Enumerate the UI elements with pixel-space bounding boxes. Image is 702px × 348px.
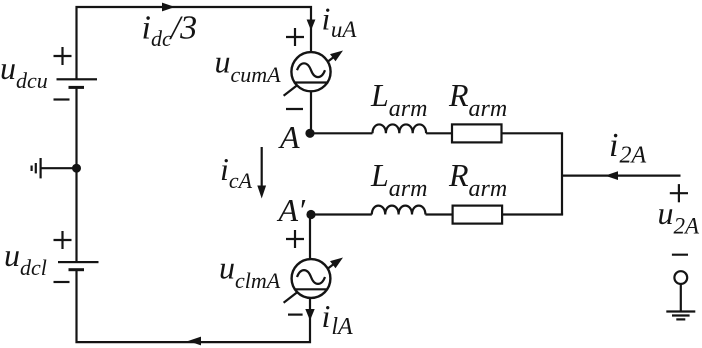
source U2 circle [292, 259, 331, 298]
inductor L1 [373, 124, 427, 133]
wire inductor to resistor [426, 132, 452, 134]
wire terminal to ground [680, 284, 682, 312]
plus sign of u_dcl [54, 231, 72, 249]
svg-text:ucumA: ucumA [215, 44, 282, 88]
svg-text:A′: A′ [277, 192, 307, 228]
wire node A' to inductor [311, 213, 372, 215]
arrow i_cA (annotation, down) [261, 147, 263, 187]
svg-text:icA: icA [220, 151, 253, 193]
svg-text:udcl: udcl [4, 237, 47, 280]
op source U1 u_cumA: diagonal variability arrow [284, 55, 337, 96]
wire node A to inductor [310, 132, 373, 134]
minus sign of u_dcl [54, 281, 70, 283]
svg-text:idc/3: idc/3 [142, 10, 198, 52]
arrow i_lA (down) below source U2 [305, 309, 314, 321]
wire inductor2 to resistor2 [425, 213, 452, 215]
wire source U1 to node A [310, 91, 312, 133]
minus sign of u_dcu [54, 98, 70, 100]
wire right vertical joining arms [561, 133, 563, 214]
wire output [562, 175, 681, 177]
wire resistor to right joint [502, 132, 564, 134]
arrow i_uA (down) on wire into upper source [307, 20, 316, 31]
minus sign upper source [286, 108, 303, 110]
resistor R1 [452, 124, 502, 142]
plus sign lower source [286, 230, 304, 248]
wire node A' down to lower source [309, 215, 311, 260]
source U1 circle [291, 52, 330, 91]
arrow i_2A (pointing left) on output wire [605, 171, 618, 180]
junction dot ground [72, 164, 81, 173]
svg-text:i2A: i2A [609, 127, 646, 169]
svg-text:uclmA: uclmA [219, 250, 281, 294]
node A dot [305, 129, 314, 138]
ground left [32, 158, 77, 178]
sine inside U2 [297, 270, 325, 284]
wire bottom horizontal [75, 298, 310, 342]
ground right [666, 312, 695, 320]
svg-text:Rarm: Rarm [448, 157, 507, 202]
svg-text:A: A [278, 119, 300, 155]
plus sign output [670, 184, 688, 202]
source U2 diagonal variability arrow [284, 262, 337, 303]
arrow on bottom wire (pointing left) [188, 337, 201, 346]
inductor L2 [372, 206, 426, 215]
svg-text:Rarm: Rarm [448, 77, 507, 122]
chord inside U2 [295, 288, 328, 290]
wire left middle segment [75, 88, 77, 262]
plus sign upper source [286, 28, 304, 46]
arrow i_dc on top wire [162, 3, 175, 12]
resistor R2 [453, 206, 503, 224]
svg-text:Larm: Larm [370, 157, 427, 202]
battery U_dcl plates [58, 261, 99, 263]
svg-text:iuA: iuA [322, 1, 358, 43]
svg-text:udcu: udcu [0, 50, 48, 93]
wire top horizontal [77, 7, 312, 79]
chord inside U1 [295, 81, 328, 83]
minus sign lower source [288, 314, 303, 316]
plus sign of u_dcu [54, 47, 72, 65]
minus sign output [672, 254, 688, 256]
battery U_dcu plates [57, 78, 98, 80]
wire resistor2 to right joint [502, 213, 563, 215]
svg-text:ilA: ilA [322, 298, 354, 340]
sine inside U1 [297, 63, 325, 77]
svg-text:Larm: Larm [370, 77, 427, 122]
terminal circle output [674, 271, 687, 284]
node A' dot [306, 210, 315, 219]
wire left lower segment [75, 271, 77, 342]
